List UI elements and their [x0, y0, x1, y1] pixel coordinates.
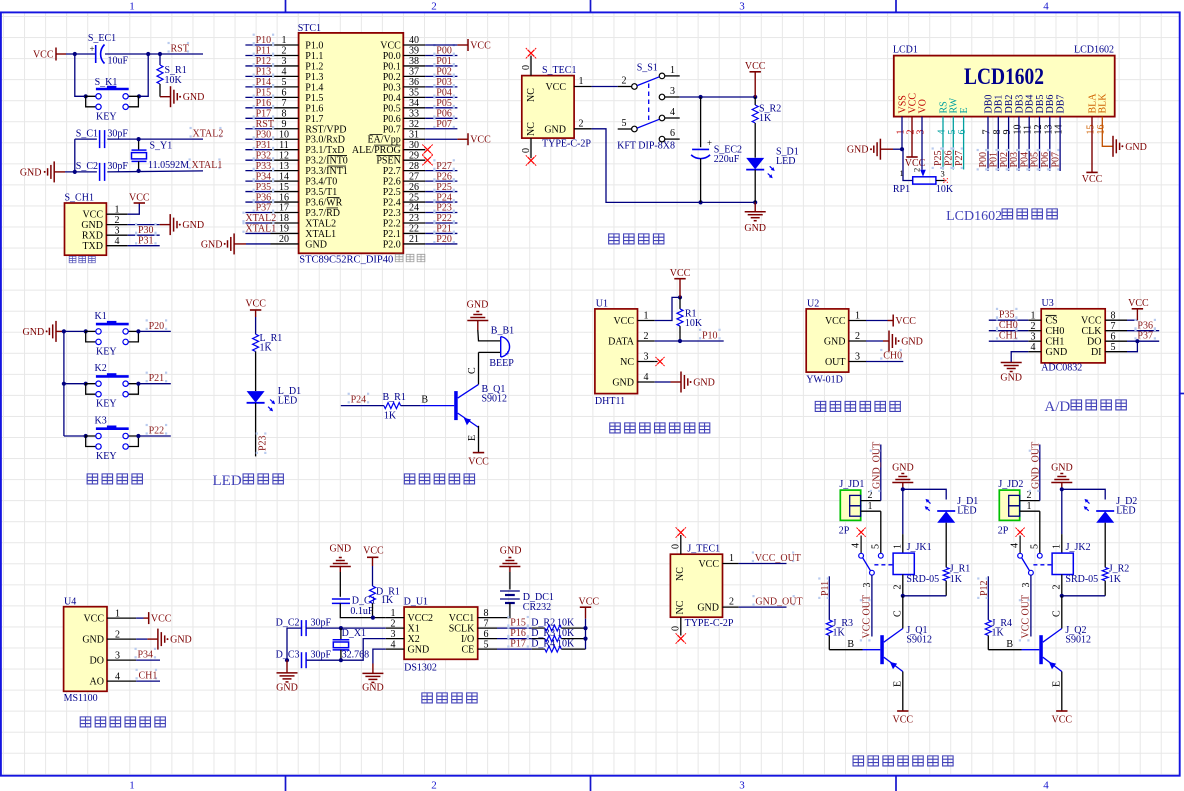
- U3 pin names: [1028, 310, 1127, 358]
- svg-text:LCD1602: LCD1602: [946, 209, 1002, 224]
- net label CH0 (U2): [866, 349, 903, 362]
- svg-text:P34: P34: [138, 649, 154, 660]
- svg-text:LED: LED: [776, 156, 795, 167]
- mcu right net wires: [425, 44, 457, 245]
- svg-text:4: 4: [851, 543, 862, 548]
- svg-text:DHT11: DHT11: [595, 396, 625, 407]
- svg-text:GND: GND: [544, 124, 566, 135]
- svg-text:32.768: 32.768: [342, 649, 370, 660]
- capacitor D_C3 30pF: [276, 650, 332, 669]
- wire emitter (J_Q2): [1051, 672, 1062, 712]
- svg-text:C: C: [892, 610, 903, 617]
- net label GND_OUT: [723, 595, 803, 608]
- svg-text:P31: P31: [256, 140, 272, 151]
- wire relay top net: [892, 487, 946, 553]
- svg-text:34: 34: [409, 98, 419, 109]
- svg-text:XTAL2: XTAL2: [305, 218, 336, 229]
- title dianyuandianlu: [609, 234, 664, 244]
- title xiazaikou: [69, 256, 95, 263]
- resistor B_R1 1K: [383, 392, 406, 422]
- power VCC (pullups): [579, 597, 600, 650]
- svg-text:16: 16: [1096, 125, 1107, 135]
- svg-text:2: 2: [892, 585, 903, 590]
- power VCC (U3): [1127, 298, 1149, 320]
- mcu U STC1 STC89C52RC_DIP40: [298, 23, 404, 265]
- S_CH1 pin lines and numbers: [106, 204, 127, 247]
- svg-text:1: 1: [892, 544, 903, 549]
- svg-text:2: 2: [1031, 321, 1036, 332]
- svg-text:KEY: KEY: [96, 451, 117, 462]
- net label XTAL2: [190, 127, 224, 140]
- svg-text:P1.1: P1.1: [305, 51, 323, 62]
- svg-text:2: 2: [115, 629, 120, 640]
- relay J_JK2 SRD-05: [1052, 542, 1098, 585]
- svg-text:P12: P12: [979, 580, 990, 596]
- svg-text:S_C1: S_C1: [76, 129, 98, 140]
- svg-text:BLK: BLK: [1098, 93, 1109, 114]
- svg-text:GND: GND: [82, 635, 104, 646]
- svg-text:S9012: S9012: [906, 635, 932, 646]
- led J_D2: [1084, 496, 1138, 567]
- svg-text:2: 2: [912, 168, 922, 172]
- svg-text:P05: P05: [436, 98, 452, 109]
- wire key trunk: [62, 329, 66, 436]
- svg-text:1: 1: [115, 608, 120, 619]
- svg-text:2: 2: [579, 119, 584, 130]
- svg-text:2: 2: [729, 597, 734, 608]
- svg-text:P2.2: P2.2: [383, 218, 401, 229]
- capacitor D_C1 0.1uF: [332, 572, 386, 618]
- svg-text:26: 26: [409, 182, 419, 193]
- connector J_JD2 2P: [998, 479, 1024, 537]
- svg-text:P1.5: P1.5: [305, 93, 323, 104]
- svg-text:32: 32: [409, 119, 419, 130]
- svg-text:S_EC1: S_EC1: [88, 33, 116, 44]
- svg-text:DI: DI: [1091, 347, 1102, 358]
- svg-text:GND_OUT: GND_OUT: [871, 442, 882, 489]
- svg-text:GND: GND: [1051, 463, 1073, 474]
- net label GND_OUT (J_JD1): [861, 442, 883, 501]
- svg-text:+: +: [505, 349, 510, 358]
- svg-text:X1: X1: [408, 624, 420, 635]
- svg-text:S_K1: S_K1: [95, 77, 118, 88]
- svg-text:P0.4: P0.4: [383, 93, 401, 104]
- svg-text:VCC: VCC: [579, 597, 600, 608]
- J_TEC1 bottom NC stub: [670, 617, 686, 644]
- svg-text:1K: 1K: [384, 411, 397, 422]
- svg-text:E: E: [959, 107, 970, 113]
- svg-text:GND: GND: [81, 220, 103, 231]
- svg-text:1: 1: [129, 780, 135, 791]
- svg-text:P0.3: P0.3: [383, 82, 401, 93]
- DS1302 pin names: [386, 608, 497, 656]
- svg-text:25: 25: [409, 192, 419, 203]
- sensor U4 MS1100: [64, 597, 107, 704]
- svg-text:VCC: VCC: [698, 559, 719, 570]
- wire base (J_Q1): [829, 636, 880, 650]
- title LED deng dianlu: [213, 473, 284, 489]
- relay J_JK1 SRD-05: [893, 542, 939, 585]
- no connect U1 pin3: [655, 357, 665, 366]
- ground (S_R1): [160, 86, 204, 107]
- svg-text:TYPE-C-2P: TYPE-C-2P: [542, 139, 591, 150]
- svg-text:P23: P23: [436, 203, 452, 214]
- svg-text:1: 1: [670, 65, 675, 76]
- svg-text:2P: 2P: [998, 526, 1009, 537]
- resistor R1 10K: [677, 297, 703, 341]
- svg-text:P23: P23: [257, 435, 268, 451]
- lcd pin names and numbers: [896, 93, 1109, 135]
- ground (DS1302 pin4): [362, 649, 386, 693]
- svg-text:J_JD1: J_JD1: [839, 479, 864, 490]
- svg-text:CH1: CH1: [139, 670, 158, 681]
- wire emitter: [467, 426, 479, 453]
- svg-text:B: B: [1006, 639, 1013, 650]
- power VCC (mcu pin40): [425, 39, 491, 52]
- U2 pin names: [824, 311, 866, 368]
- svg-text:GND: GND: [362, 682, 384, 693]
- svg-text:3: 3: [115, 650, 120, 661]
- svg-text:VCC: VCC: [83, 614, 104, 625]
- svg-text:23: 23: [409, 213, 419, 224]
- wire XTAL1 net: [65, 171, 203, 172]
- svg-text:P33: P33: [256, 161, 272, 172]
- svg-text:DATA: DATA: [608, 337, 635, 348]
- svg-text:P04: P04: [436, 88, 452, 99]
- svg-text:P00: P00: [436, 46, 452, 57]
- key K2: [64, 363, 141, 410]
- svg-text:VCC1: VCC1: [449, 613, 475, 624]
- svg-text:P34: P34: [256, 171, 272, 182]
- svg-text:P27: P27: [436, 161, 452, 172]
- svg-text:GND: GND: [23, 327, 45, 338]
- wire RST net: [66, 54, 203, 96]
- ground (U3): [1000, 352, 1028, 384]
- svg-text:P20: P20: [149, 321, 165, 332]
- svg-text:U2: U2: [807, 299, 819, 310]
- crystal S_Y1 11.0592M: [132, 139, 190, 171]
- svg-text:K1: K1: [95, 311, 107, 322]
- svg-text:NC: NC: [675, 567, 686, 581]
- svg-text:VO: VO: [917, 99, 928, 113]
- svg-text:RST: RST: [256, 119, 274, 130]
- svg-text:C: C: [467, 367, 478, 374]
- no connect relay pin4 (J_JK2): [1010, 528, 1025, 554]
- S_TEC1 top NC stub: [521, 48, 536, 76]
- svg-text:STC89C52RC_DIP40: STC89C52RC_DIP40: [299, 254, 393, 265]
- net label P21: [138, 372, 170, 385]
- net label CH0 (U3): [989, 318, 1029, 331]
- capacitor S_EC2 220uF: [691, 97, 742, 202]
- rtc D_U1 DS1302: [404, 597, 478, 674]
- svg-text:30pF: 30pF: [311, 650, 332, 661]
- svg-text:B_R1: B_R1: [383, 392, 406, 403]
- ground (S_CH1): [128, 214, 204, 235]
- resistor S_R2 1K: [752, 97, 781, 158]
- svg-text:CR232: CR232: [523, 602, 551, 613]
- no connect pin30: [422, 145, 432, 155]
- connector J_JD1 2P: [839, 479, 865, 537]
- svg-text:17: 17: [279, 203, 289, 214]
- svg-text:VCC OUT: VCC OUT: [1020, 595, 1031, 639]
- svg-text:VCC: VCC: [33, 50, 54, 61]
- power VCC (mcu pin31): [425, 133, 491, 146]
- title fengmingqidianlu: [404, 474, 474, 484]
- svg-text:6: 6: [484, 629, 489, 640]
- resistor D_R4 10K and net P17: [497, 637, 586, 652]
- svg-text:XTAL1: XTAL1: [192, 160, 223, 171]
- capacitor S_C2 30pF: [76, 161, 129, 181]
- svg-text:10uF: 10uF: [108, 56, 129, 67]
- svg-text:10K: 10K: [557, 639, 575, 650]
- ground (battery): [499, 546, 521, 573]
- svg-text:40: 40: [409, 35, 419, 46]
- ground (buzzer): [467, 300, 489, 331]
- svg-text:LCD1: LCD1: [893, 45, 918, 56]
- svg-text:P0.5: P0.5: [383, 103, 401, 114]
- svg-text:P25: P25: [436, 182, 452, 193]
- resistor J_R2 1K: [1102, 564, 1129, 596]
- svg-text:38: 38: [409, 56, 419, 67]
- svg-text:2: 2: [282, 46, 287, 57]
- J_TEC1 top NC stub: [670, 527, 686, 554]
- svg-text:P36: P36: [256, 192, 272, 203]
- svg-text:CH0: CH0: [999, 320, 1018, 331]
- svg-text:P37: P37: [1137, 330, 1153, 341]
- svg-text:14: 14: [279, 171, 289, 182]
- svg-text:P3.5/T1: P3.5/T1: [305, 187, 337, 198]
- svg-text:27: 27: [409, 171, 419, 182]
- svg-text:GND: GND: [276, 682, 298, 693]
- svg-text:P24: P24: [436, 192, 452, 203]
- svg-text:16: 16: [279, 192, 289, 203]
- svg-text:P17: P17: [510, 639, 526, 650]
- svg-text:P1.6: P1.6: [305, 103, 323, 114]
- svg-text:4: 4: [115, 671, 120, 682]
- svg-text:A/D: A/D: [1044, 399, 1070, 415]
- svg-text:P35: P35: [999, 309, 1015, 320]
- svg-text:P16: P16: [510, 628, 526, 639]
- resistor S_R1 10K: [157, 65, 187, 86]
- svg-text:1: 1: [900, 168, 904, 178]
- svg-text:NC: NC: [620, 357, 634, 368]
- svg-text:P3.6/WR: P3.6/WR: [305, 198, 342, 209]
- svg-text:K3: K3: [95, 416, 107, 427]
- svg-text:VCC OUT: VCC OUT: [861, 595, 872, 639]
- svg-text:VCC: VCC: [363, 546, 384, 557]
- connector S_CH1: [65, 193, 107, 256]
- svg-text:P1.7: P1.7: [305, 114, 323, 125]
- svg-text:P1.3: P1.3: [305, 72, 323, 83]
- net label P37: [1127, 329, 1159, 344]
- svg-text:GND: GND: [170, 635, 192, 646]
- wire relay pin2: [892, 575, 946, 598]
- svg-text:P1.2: P1.2: [305, 61, 323, 72]
- svg-text:VCC: VCC: [470, 135, 491, 146]
- transistor J_Q2 S9012: [1039, 625, 1091, 672]
- svg-text:2: 2: [1051, 585, 1062, 590]
- connector J_TEC1 TYPE-C-2P: [670, 544, 734, 629]
- svg-text:10: 10: [279, 129, 289, 140]
- svg-text:6: 6: [957, 130, 968, 135]
- svg-text:S_CH1: S_CH1: [65, 193, 94, 204]
- svg-text:AO: AO: [90, 677, 104, 688]
- svg-text:20: 20: [279, 234, 289, 245]
- svg-text:P2.7: P2.7: [383, 166, 401, 177]
- led L_D1: [247, 386, 302, 411]
- svg-text:D_R2: D_R2: [531, 618, 555, 629]
- svg-text:3: 3: [862, 583, 873, 588]
- svg-text:P3.0/RxD: P3.0/RxD: [305, 135, 345, 146]
- svg-text:39: 39: [409, 46, 419, 57]
- svg-text:5: 5: [484, 639, 489, 650]
- svg-text:GND: GND: [1046, 347, 1068, 358]
- svg-text:3: 3: [941, 169, 945, 179]
- title LCD1602 xianshi mokuai: [946, 209, 1057, 224]
- svg-text:BEEP: BEEP: [489, 358, 514, 369]
- net label P23: [256, 403, 269, 456]
- sensor U2 YW-01D: [806, 299, 849, 386]
- svg-text:2P: 2P: [839, 526, 850, 537]
- svg-text:4: 4: [115, 236, 120, 247]
- svg-text:VCC: VCC: [1082, 174, 1103, 185]
- svg-text:P15: P15: [256, 88, 272, 99]
- svg-text:D_X1: D_X1: [342, 628, 366, 639]
- svg-text:P20: P20: [436, 234, 452, 245]
- svg-text:2: 2: [431, 1, 437, 13]
- svg-text:P11: P11: [256, 46, 271, 57]
- transistor J_Q1 S9012: [880, 625, 932, 672]
- svg-text:1K: 1K: [260, 343, 273, 354]
- svg-text:C: C: [1051, 610, 1062, 617]
- svg-text:0: 0: [521, 65, 532, 70]
- svg-text:GND: GND: [901, 337, 923, 348]
- svg-text:3: 3: [855, 352, 860, 363]
- label danpianji: [395, 254, 425, 261]
- svg-text:LCD1602: LCD1602: [964, 64, 1044, 89]
- resistor J_R4 1K: [985, 618, 1012, 638]
- svg-text:LED: LED: [1116, 506, 1135, 517]
- net label P12: [977, 576, 990, 620]
- svg-text:P0.7: P0.7: [383, 124, 401, 135]
- svg-text:GND: GND: [182, 220, 204, 231]
- wire collector (J_Q1): [892, 596, 903, 629]
- resistor D_R3 10K and net P16: [497, 626, 588, 641]
- svg-text:D_C2: D_C2: [276, 618, 300, 629]
- svg-text:S_C2: S_C2: [76, 161, 98, 172]
- svg-text:E: E: [467, 435, 478, 441]
- wire buzzer top: [478, 330, 501, 341]
- wire XTAL2 net: [75, 139, 203, 172]
- svg-text:NC: NC: [526, 122, 537, 136]
- resistor L_R1 1K: [253, 333, 283, 354]
- S_TEC1 bottom NC stub: [521, 138, 536, 166]
- svg-text:VCC: VCC: [1081, 316, 1102, 327]
- svg-text:J_JK2: J_JK2: [1066, 542, 1091, 553]
- svg-text:1K: 1K: [381, 595, 394, 606]
- svg-text:5: 5: [282, 77, 287, 88]
- svg-text:S_TEC1: S_TEC1: [542, 65, 576, 76]
- net label P30: [128, 223, 160, 236]
- title jiaquan mokuai: [80, 717, 165, 727]
- svg-text:3: 3: [916, 130, 927, 135]
- svg-text:P3.1/TxD: P3.1/TxD: [305, 145, 344, 156]
- svg-text:PSEN: PSEN: [376, 156, 400, 167]
- svg-text:14: 14: [1054, 125, 1065, 135]
- svg-text:I/O: I/O: [461, 634, 474, 645]
- net label P34: [135, 648, 161, 661]
- svg-text:P22: P22: [149, 426, 165, 437]
- svg-text:P30: P30: [256, 129, 272, 140]
- net label VCC_OUT (J_JK1): [860, 575, 873, 641]
- svg-text:D_R3: D_R3: [531, 628, 555, 639]
- svg-text:3: 3: [1031, 331, 1036, 342]
- wire base (J_Q2): [988, 636, 1039, 650]
- svg-text:5: 5: [1111, 342, 1116, 353]
- mcu left net wires: [242, 34, 276, 235]
- power VCC (lcd): [905, 117, 926, 169]
- svg-text:J_JD2: J_JD2: [998, 479, 1023, 490]
- svg-text:31: 31: [409, 129, 419, 140]
- svg-text:GND: GND: [612, 378, 634, 389]
- power VCC (led): [245, 299, 266, 335]
- svg-text:P1.4: P1.4: [305, 82, 323, 93]
- svg-text:ALE/PROG: ALE/PROG: [352, 145, 401, 156]
- ground (U4): [136, 629, 192, 650]
- svg-text:2: 2: [115, 215, 120, 226]
- transistor B_Q1 S9012: [454, 384, 507, 427]
- svg-text:30pF: 30pF: [311, 618, 332, 629]
- U4 pin names: [82, 608, 136, 687]
- svg-text:4: 4: [282, 67, 287, 78]
- svg-text:P07: P07: [436, 119, 452, 130]
- svg-text:GND: GND: [500, 546, 522, 557]
- svg-text:EA/Vpp: EA/Vpp: [367, 135, 400, 146]
- svg-text:0.1uF: 0.1uF: [350, 606, 374, 617]
- svg-text:K2: K2: [95, 363, 107, 374]
- svg-text:VCC: VCC: [893, 714, 914, 725]
- power VCC (lcd BLA): [1082, 117, 1103, 185]
- svg-text:36: 36: [409, 77, 419, 88]
- svg-text:P3.4/T0: P3.4/T0: [305, 177, 337, 188]
- svg-text:XTAL1: XTAL1: [305, 229, 336, 240]
- svg-text:U3: U3: [1042, 298, 1054, 309]
- mcu right pins: [403, 35, 425, 245]
- svg-text:P14: P14: [256, 77, 272, 88]
- svg-text:10K: 10K: [165, 75, 183, 86]
- svg-text:GND: GND: [744, 223, 766, 234]
- svg-text:P0.0: P0.0: [383, 51, 401, 62]
- svg-text:CS: CS: [1046, 316, 1058, 327]
- svg-text:30pF: 30pF: [107, 161, 128, 172]
- capacitor S_EC1 10uF: [88, 33, 129, 67]
- svg-text:VCC: VCC: [245, 299, 266, 310]
- svg-text:2: 2: [622, 76, 627, 87]
- svg-text:1K: 1K: [759, 113, 772, 124]
- wire relay top net: [1051, 487, 1105, 553]
- svg-text:19: 19: [279, 224, 289, 235]
- svg-text:GND: GND: [467, 300, 489, 311]
- svg-text:0: 0: [670, 626, 681, 631]
- svg-text:XTAL2: XTAL2: [245, 213, 276, 224]
- wire J_JD1 pin1: [861, 501, 882, 554]
- svg-text:J_TEC1: J_TEC1: [687, 544, 720, 555]
- ground (mcu pin20): [201, 233, 271, 254]
- svg-text:15: 15: [279, 182, 289, 193]
- svg-text:P10: P10: [702, 330, 718, 341]
- U1 pin names: [608, 311, 655, 389]
- title jidianqi kongzhi dianlu: [853, 756, 953, 766]
